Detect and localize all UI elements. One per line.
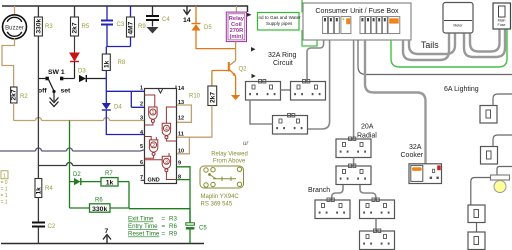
svg-text:10: 10	[178, 149, 184, 155]
svg-text:Supply pipes: Supply pipes	[266, 21, 293, 26]
svg-text:C5: C5	[199, 226, 207, 232]
wire D4 to pin 4	[106, 111, 144, 135]
svg-text:9: 9	[178, 161, 181, 167]
svg-text:R3: R3	[45, 24, 53, 30]
ceiling light pendant	[491, 167, 512, 193]
6A lighting cable	[358, 40, 512, 75]
gate 4	[162, 107, 176, 141]
svg-text:Relay Viewed: Relay Viewed	[211, 152, 248, 158]
pin 14 supply arrow	[183, 6, 191, 24]
switch SW1	[38, 69, 75, 107]
capacitor C3	[101, 6, 125, 47]
wire lamp to switches	[471, 178, 491, 206]
svg-text:(min): (min)	[229, 34, 243, 40]
ground under C4	[147, 27, 159, 34]
branch socket C	[360, 231, 395, 250]
timing legend text	[128, 216, 177, 238]
ground under Q2	[231, 95, 240, 100]
main switch with orange bar	[388, 17, 400, 34]
pin number labels	[140, 86, 185, 182]
gate 2	[145, 137, 158, 159]
wire R4 to C2	[37, 198, 39, 223]
radial socket 2	[336, 166, 371, 185]
svg-text:1: 1	[151, 110, 154, 116]
svg-text:13: 13	[178, 100, 184, 106]
svg-text:Meter: Meter	[453, 24, 463, 28]
svg-text:R4: R4	[45, 186, 53, 192]
buzzer	[3, 6, 27, 39]
pin 7 ground arrow	[103, 228, 111, 244]
svg-text:off: off	[38, 88, 47, 95]
svg-text:RS 369 545: RS 369 545	[201, 202, 233, 208]
svg-text:set: set	[61, 88, 72, 95]
20A radial label	[357, 124, 377, 140]
bond earth wire from consumer unit	[302, 30, 317, 46]
svg-text:R3: R3	[169, 216, 177, 223]
wire R2 to pin3 line	[13, 103, 15, 121]
light switch 3	[468, 205, 485, 223]
svg-text:R9: R9	[138, 24, 146, 30]
wire D5 to relay terminal	[196, 31, 236, 49]
capacitor C5	[186, 223, 208, 232]
svg-text:SW 1: SW 1	[48, 69, 65, 76]
wire switch3 to switch4	[476, 223, 478, 233]
wire R8 to D3 node and down	[105, 71, 107, 104]
svg-text:Circuit: Circuit	[273, 60, 293, 67]
wire socket1 to socket2	[281, 89, 291, 91]
wire C3/R9 junction to R8	[106, 47, 130, 55]
svg-text:2k7: 2k7	[210, 92, 217, 103]
svg-text:Entry Time: Entry Time	[128, 223, 158, 230]
capacitor C4	[146, 6, 170, 27]
svg-text:Cooker: Cooker	[401, 152, 424, 159]
svg-text:D3: D3	[78, 69, 86, 75]
svg-text:2k7: 2k7	[11, 89, 18, 100]
resistor R10	[189, 71, 217, 106]
truth table fragment	[1, 171, 9, 206]
pin 5 net (slate)	[0, 148, 145, 151]
svg-text:nd to Gas and Water: nd to Gas and Water	[259, 15, 302, 20]
svg-text:7: 7	[140, 175, 143, 181]
svg-text:R6: R6	[95, 198, 103, 204]
ring socket 1	[246, 82, 281, 101]
svg-text:R9: R9	[169, 231, 177, 238]
svg-text:Exit Time: Exit Time	[128, 216, 154, 223]
hop over blue column	[104, 118, 110, 121]
svg-text:3: 3	[140, 116, 143, 122]
breaker bank 2	[360, 17, 400, 34]
diode D2	[70, 172, 102, 185]
branch wire right	[360, 185, 376, 200]
svg-text:1k: 1k	[106, 180, 114, 187]
IC U1 (quad NAND) body	[141, 86, 177, 184]
RCD with orange stripe	[341, 17, 351, 34]
svg-text:Tails: Tails	[421, 40, 439, 50]
svg-text:1: 1	[140, 86, 143, 92]
svg-text:32A: 32A	[409, 144, 422, 151]
main earth wire	[391, 30, 507, 68]
svg-text:C4: C4	[162, 17, 170, 23]
resistor R4	[35, 179, 53, 198]
ring socket 2	[291, 82, 326, 101]
svg-text:R2: R2	[20, 94, 28, 100]
relay coil box	[226, 12, 246, 41]
20A radial cable	[353, 40, 355, 139]
32A cooker label	[401, 144, 424, 159]
relay top view note	[211, 152, 248, 165]
svg-text:R7: R7	[105, 171, 113, 177]
32A cooker cable	[365, 40, 426, 164]
svg-text:From Above: From Above	[213, 159, 246, 165]
svg-text:=: =	[162, 223, 166, 230]
wire IC pins 9,8 to C5	[177, 167, 191, 223]
wire pins 13,12 tie	[177, 105, 192, 122]
wire R10 to pin 11	[177, 106, 212, 138]
svg-text:6A Lighting: 6A Lighting	[444, 86, 479, 93]
wire socket3 to socket1	[250, 100, 273, 124]
tails cables meter to main fuse	[464, 30, 505, 58]
svg-text:14: 14	[178, 86, 185, 92]
svg-text:1k: 1k	[103, 60, 110, 68]
svg-text:2: 2	[152, 143, 155, 149]
wire Q2 emitter to ground	[235, 76, 237, 95]
branch wire left	[332, 185, 343, 200]
green timing network column	[69, 121, 71, 209]
tails cables CU to meter	[403, 34, 455, 61]
gate 1	[145, 95, 158, 125]
branch socket A	[315, 200, 350, 219]
svg-text:= 1: = 1	[1, 193, 8, 199]
svg-text:5: 5	[140, 144, 143, 150]
svg-text:=: =	[162, 216, 166, 223]
capacitor C2	[32, 223, 56, 231]
wire LED to switch line	[74, 62, 76, 79]
svg-text:3: 3	[165, 159, 168, 165]
svg-text:D2: D2	[73, 172, 81, 178]
svg-text:1k: 1k	[35, 187, 42, 195]
svg-text:4M7: 4M7	[128, 21, 135, 34]
resistor R2	[11, 87, 29, 103]
svg-text:330k: 330k	[92, 206, 107, 213]
transistor Q2	[212, 62, 247, 76]
svg-text:GND: GND	[148, 178, 160, 184]
svg-text:= 1: = 1	[1, 200, 8, 206]
32A ring label	[268, 52, 297, 67]
bond box to gas and water	[258, 13, 302, 31]
resistor R3	[34, 6, 53, 36]
wire pins 11,10 tie	[177, 137, 190, 154]
pin3 net wire (tan horizontal)	[14, 120, 145, 122]
relay part numbers	[201, 194, 240, 208]
meter box	[443, 3, 473, 34]
off-page arrow right of rail	[247, 13, 252, 18]
diode D4	[102, 103, 123, 111]
wire R7/R6 junction	[129, 182, 190, 223]
top supply rail	[2, 6, 248, 12]
consumer unit box	[303, 3, 411, 40]
svg-text:14: 14	[183, 17, 191, 24]
svg-text:R8: R8	[118, 60, 126, 66]
cooker control unit	[409, 164, 442, 184]
resistor R9	[127, 6, 147, 47]
svg-text:7: 7	[105, 228, 109, 235]
hop over R3 column	[36, 118, 42, 121]
LED D1	[70, 53, 79, 62]
branch socket B	[360, 200, 395, 219]
svg-text:Branch: Branch	[308, 187, 330, 194]
diode D5	[192, 6, 213, 31]
off-page arrow right of Q2	[252, 74, 256, 78]
svg-text:Fuse: Fuse	[498, 23, 506, 27]
wire buzzer to R2	[2, 38, 15, 87]
main fuse box	[493, 3, 511, 29]
resistor R7	[101, 171, 129, 187]
bond earth wire up	[301, 0, 303, 13]
ring cable CU to lower socket	[308, 40, 330, 129]
relay top view drawing	[200, 166, 244, 188]
resistor R6	[70, 198, 130, 213]
relay feed wire from rail	[235, 6, 237, 12]
svg-text:R5: R5	[82, 24, 90, 30]
svg-text:Main: Main	[498, 19, 506, 23]
wire R3 to SW1	[37, 36, 39, 79]
svg-text:4: 4	[165, 126, 168, 132]
svg-text:Consumer Unit / Fuse Box: Consumer Unit / Fuse Box	[315, 7, 399, 15]
svg-text:12: 12	[178, 116, 184, 122]
svg-text:2: 2	[140, 101, 143, 107]
svg-text:= 1: = 1	[1, 187, 8, 193]
svg-text:= 0: = 0	[1, 180, 8, 186]
wire R3 column lower	[37, 79, 39, 179]
svg-text:330k: 330k	[35, 18, 42, 33]
wire relay to Q2 collector	[229, 42, 235, 66]
svg-text:Reset Time: Reset Time	[128, 231, 160, 238]
svg-text:Maplin YX94C: Maplin YX94C	[201, 194, 240, 200]
resistor R8	[102, 54, 126, 71]
svg-text:1: 1	[3, 173, 6, 179]
svg-text:R6: R6	[169, 223, 177, 230]
wire socket B to C	[375, 219, 377, 232]
svg-text:=: =	[162, 231, 166, 238]
wire node to IC pins 1,2	[106, 91, 144, 107]
bottom ground rail	[1, 243, 204, 245]
wire C2 to ground rail	[37, 227, 39, 244]
svg-text:11: 11	[178, 132, 184, 138]
svg-text:32A Ring: 32A Ring	[268, 52, 297, 59]
ring cable CU to socket	[307, 40, 324, 82]
resistor R5	[71, 6, 90, 36]
svg-text:D5: D5	[204, 25, 212, 31]
wire R5 to LED	[74, 36, 76, 53]
svg-text:Buzzer: Buzzer	[5, 26, 24, 32]
wire radial1 to radial2	[353, 158, 355, 167]
pin 6 net	[38, 163, 144, 166]
wire C5 to ground rail	[189, 230, 191, 244]
svg-text:D4: D4	[114, 105, 122, 111]
svg-text:2k7: 2k7	[72, 22, 79, 33]
gate 3	[145, 153, 177, 180]
svg-text:R10: R10	[189, 94, 201, 100]
diode D3	[78, 69, 106, 83]
light switch 4	[468, 232, 485, 250]
ring socket 3	[273, 116, 308, 135]
svg-text:C3: C3	[117, 22, 125, 28]
svg-text:C2: C2	[48, 224, 56, 230]
svg-text:20A: 20A	[361, 124, 374, 131]
off-page arrow right of relay	[251, 47, 256, 52]
breaker bank 1	[323, 17, 351, 34]
radial socket 1	[336, 139, 371, 158]
light switch 2	[481, 147, 498, 165]
light switch 1	[480, 106, 497, 124]
svg-text:Q2: Q2	[239, 67, 248, 73]
